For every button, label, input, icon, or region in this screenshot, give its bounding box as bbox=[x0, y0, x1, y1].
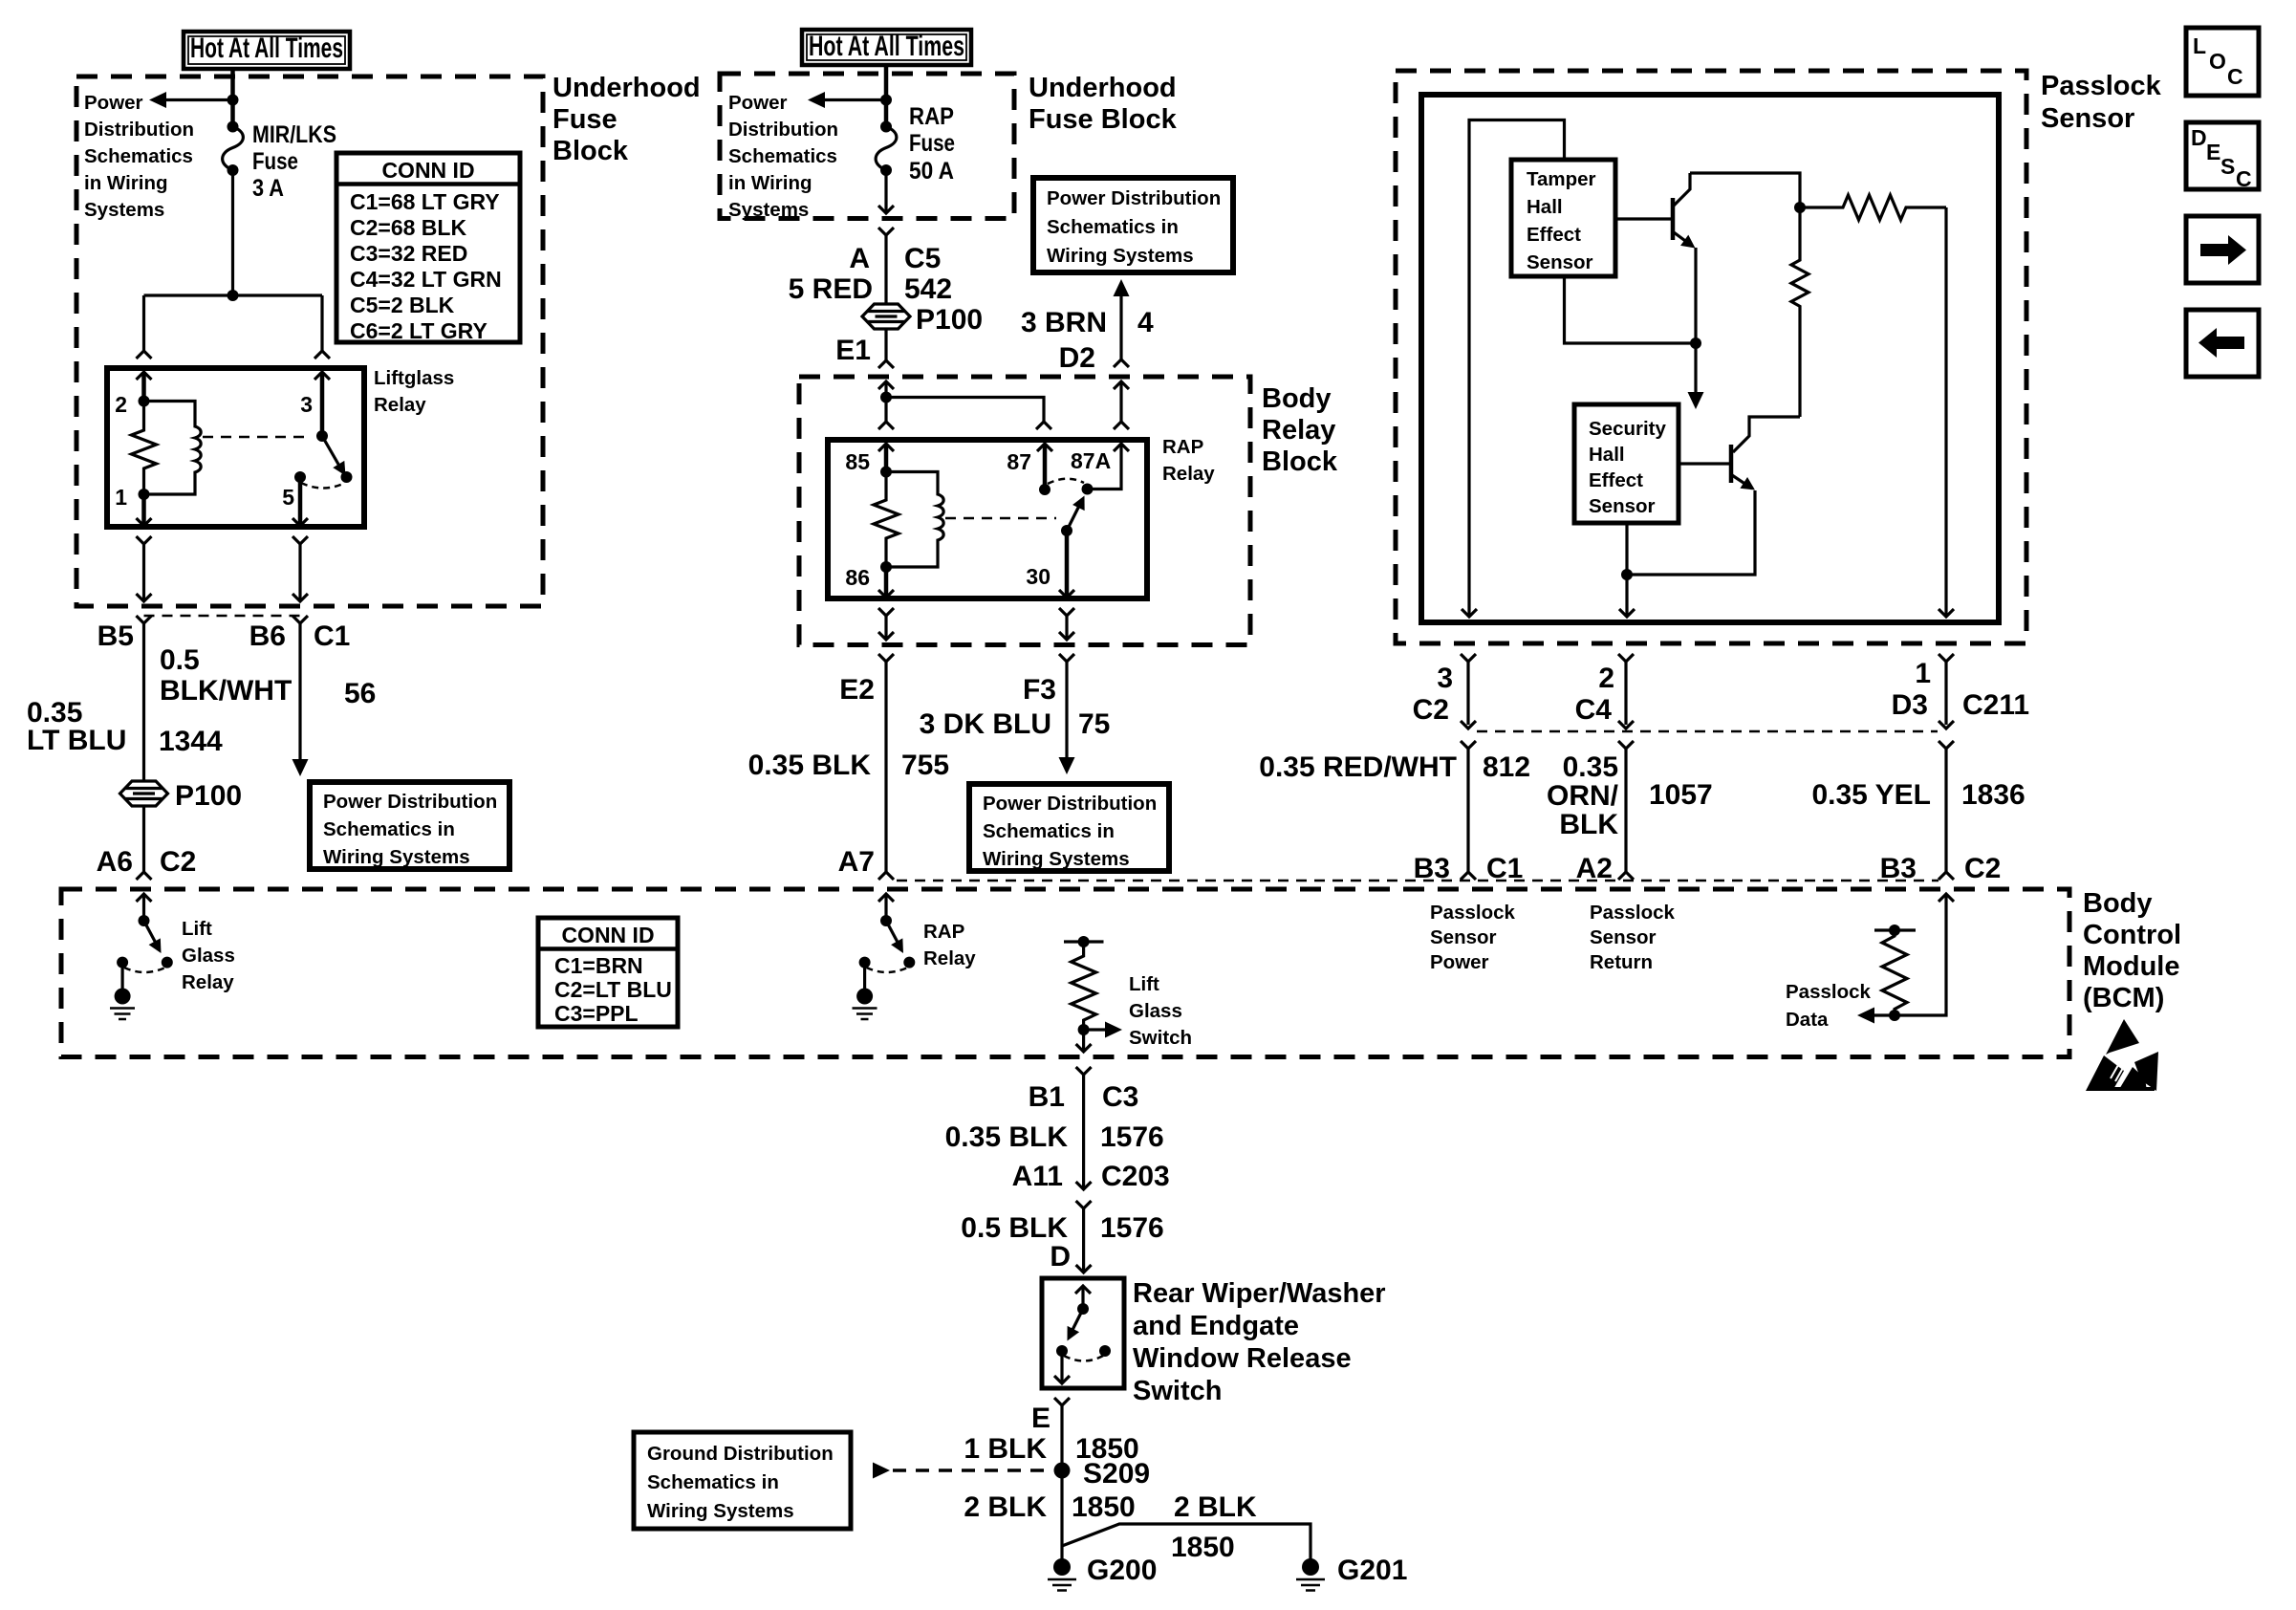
label: pin 1 bbox=[115, 485, 127, 510]
wire: tamper sensor output to Q1 base bbox=[1615, 217, 1673, 220]
connector A / C5 bbox=[849, 228, 941, 274]
wire: security sensor output to Q2 base bbox=[1679, 462, 1731, 465]
label: Rear Wiper/Washer and Endgate Window Release Switch bbox=[1133, 1278, 1386, 1406]
label: pin 3 bbox=[300, 392, 313, 417]
label: 0.35 BLK 1576 bbox=[945, 1121, 1164, 1153]
svg-text:P100: P100 bbox=[175, 780, 242, 812]
node: RAP relay pivot (BCM) bbox=[880, 915, 892, 926]
node: passlock data junction bbox=[1889, 1010, 1900, 1021]
svg-text:S209: S209 bbox=[1083, 1458, 1150, 1490]
label: pin 87A bbox=[1071, 448, 1111, 473]
wire: passlock data input bbox=[1895, 894, 1954, 1015]
label: pin 30 bbox=[1026, 564, 1051, 589]
wire: pin 1 to connector C211 level bbox=[1939, 662, 1954, 729]
label: RAP Relay (BCM) bbox=[923, 921, 976, 969]
svg-text:O: O bbox=[2209, 49, 2226, 74]
svg-text:Relay: Relay bbox=[1262, 415, 1335, 446]
fuse F2 RAP 50A bbox=[876, 121, 897, 177]
dashed arc: throw positions (liftglass relay) bbox=[301, 483, 345, 489]
label: Power Distribution Schematics in Wiring Systems (middle) bbox=[728, 92, 838, 221]
label: 2 BLK 1850 (right) bbox=[1171, 1491, 1257, 1563]
wire: feed branch to 87 bbox=[886, 398, 1051, 430]
connector A6 / C2 bbox=[97, 846, 197, 878]
svg-text:1: 1 bbox=[115, 485, 127, 510]
svg-text:G201: G201 bbox=[1337, 1555, 1407, 1586]
svg-text:Relay: Relay bbox=[374, 394, 426, 416]
node: lift glass switch junction bbox=[1078, 1024, 1090, 1035]
node: junction to Power Distribution (middle) bbox=[880, 95, 892, 106]
svg-text:in Wiring: in Wiring bbox=[84, 172, 168, 194]
svg-text:Fuse: Fuse bbox=[909, 130, 955, 157]
svg-text:L: L bbox=[2193, 33, 2206, 58]
switch blade (lift glass relay BCM) bbox=[144, 921, 167, 956]
label: 0.35 ORN/BLK 1057 bbox=[1547, 751, 1713, 840]
svg-text:Switch: Switch bbox=[1129, 1027, 1192, 1049]
svg-text:Schematics in: Schematics in bbox=[983, 820, 1115, 842]
wire: pin 3 to connector C211 level bbox=[1461, 662, 1476, 729]
label: pin 85 bbox=[845, 449, 870, 474]
svg-text:and Endgate: and Endgate bbox=[1133, 1311, 1299, 1341]
svg-text:Glass: Glass bbox=[182, 945, 235, 967]
svg-text:C: C bbox=[2227, 64, 2243, 89]
node: RAP relay ground contact (BCM) bbox=[859, 957, 871, 968]
wire: circuit 1836 to BCM B3/C2 bbox=[1939, 741, 1954, 880]
Passlock Sensor dashed boundary bbox=[1396, 71, 2026, 643]
svg-text:F3: F3 bbox=[1023, 674, 1056, 706]
svg-text:C1: C1 bbox=[314, 620, 350, 652]
svg-text:BLK/WHT: BLK/WHT bbox=[160, 675, 292, 707]
dashed wire: ground distribution reference bbox=[873, 1463, 1051, 1479]
node: switch pivot (liftglass relay) bbox=[316, 430, 328, 442]
svg-text:0.35: 0.35 bbox=[1563, 751, 1618, 783]
svg-text:5 RED: 5 RED bbox=[789, 273, 873, 305]
connector face dashed line B5-B6 bbox=[144, 615, 301, 618]
wire: circuit 1057 to BCM A2 bbox=[1618, 741, 1634, 880]
splice P100 (middle) bbox=[862, 304, 910, 329]
svg-text:Tamper: Tamper bbox=[1527, 168, 1596, 190]
svg-text:Block: Block bbox=[552, 136, 629, 166]
svg-text:50 A: 50 A bbox=[909, 158, 954, 185]
svg-text:A2: A2 bbox=[1576, 853, 1613, 884]
transistor Q2 (security) bbox=[1731, 445, 1759, 495]
label: Underhood Fuse Block (middle) bbox=[1029, 73, 1178, 135]
resistor: liftglass relay coil shunt bbox=[132, 402, 157, 495]
svg-text:LT BLU: LT BLU bbox=[27, 725, 126, 756]
back arrow button bbox=[2186, 310, 2259, 377]
node: relay feed junction bbox=[880, 392, 892, 403]
wire: circuit 1850 branch to G201 bbox=[1062, 1524, 1310, 1564]
wire: arrow to Passlock Data bbox=[1857, 1008, 1895, 1024]
wire: feed down to pin 85 bbox=[878, 398, 894, 430]
wire: circuit 1576 B1 to C203 bbox=[1076, 1075, 1092, 1189]
svg-text:Passlock: Passlock bbox=[2041, 71, 2162, 101]
wire: drop to liftglass relay pin 3 bbox=[314, 295, 330, 359]
svg-text:Sensor: Sensor bbox=[1527, 251, 1593, 273]
svg-text:Hall: Hall bbox=[1589, 444, 1625, 466]
svg-text:Sensor: Sensor bbox=[1589, 495, 1656, 517]
wire: P100 to A6 bbox=[137, 806, 152, 880]
svg-text:3: 3 bbox=[300, 392, 313, 417]
wire: fuse output down to split (left) bbox=[231, 170, 234, 295]
svg-text:G200: G200 bbox=[1087, 1555, 1157, 1586]
label: Passlock Sensor Power bbox=[1430, 902, 1515, 973]
svg-text:Lift: Lift bbox=[182, 918, 212, 940]
svg-text:E1: E1 bbox=[835, 335, 871, 366]
svg-text:812: 812 bbox=[1483, 751, 1530, 783]
svg-text:Security: Security bbox=[1589, 418, 1666, 440]
svg-text:B3: B3 bbox=[1414, 853, 1450, 884]
dashed arc: throw positions (RAP relay) bbox=[1048, 479, 1084, 484]
wire: pin 2 to connector level bbox=[1618, 662, 1634, 729]
connector pin 3 below passlock bbox=[1413, 654, 1476, 726]
switch blade (RAP relay BCM) bbox=[886, 921, 909, 956]
svg-text:0.5 BLK: 0.5 BLK bbox=[961, 1212, 1068, 1244]
label: pin 5 bbox=[282, 485, 294, 510]
wire: circuit 812 to BCM B3 bbox=[1461, 741, 1476, 880]
svg-text:C4: C4 bbox=[1575, 694, 1613, 726]
node: pin 1 bbox=[139, 489, 150, 500]
svg-text:0.5: 0.5 bbox=[160, 644, 200, 676]
svg-text:1576: 1576 bbox=[1100, 1121, 1164, 1153]
node: lift glass relay ground contact bbox=[117, 957, 128, 968]
svg-text:C2: C2 bbox=[160, 846, 196, 878]
svg-text:75: 75 bbox=[1078, 708, 1110, 740]
wire: 87A contact to pin 87A exit bbox=[1088, 444, 1130, 490]
Underhood Fuse Block (left) dashed boundary bbox=[76, 76, 543, 606]
node: pullup junction bbox=[1794, 202, 1806, 213]
svg-text:Systems: Systems bbox=[84, 199, 164, 221]
svg-text:3: 3 bbox=[1437, 663, 1453, 694]
wire: rear switch output exit bbox=[1054, 1351, 1070, 1383]
wire: circuit 56 B6/C1 down to Power Distribution bbox=[292, 623, 309, 776]
label: 0.35 RED/WHT 812 bbox=[1259, 751, 1530, 783]
Passlock sensor inner case bbox=[1421, 95, 1999, 622]
svg-text:Hall: Hall bbox=[1527, 196, 1563, 218]
resistor: passlock data series (horizontal) bbox=[1800, 195, 1946, 220]
label: 0.35 YEL 1836 bbox=[1811, 779, 2025, 811]
svg-text:B1: B1 bbox=[1029, 1081, 1065, 1113]
svg-text:Module: Module bbox=[2083, 951, 2180, 982]
svg-text:RAP: RAP bbox=[923, 921, 964, 943]
label: pin 87 bbox=[1007, 449, 1031, 474]
node: rear switch pivot bbox=[1077, 1303, 1089, 1315]
svg-text:Power: Power bbox=[728, 92, 788, 114]
label: P100 (left) bbox=[175, 780, 242, 812]
svg-text:A6: A6 bbox=[97, 846, 133, 878]
dashed arc: rear switch throw bbox=[1064, 1356, 1103, 1361]
node: 87A contact bbox=[1082, 484, 1094, 495]
svg-text:Relay: Relay bbox=[1162, 463, 1215, 485]
svg-text:Return: Return bbox=[1590, 951, 1653, 973]
connector A2 bbox=[1576, 853, 1613, 884]
connector: pin 86 below relay bbox=[878, 608, 894, 640]
svg-text:C6=2 LT GRY: C6=2 LT GRY bbox=[350, 318, 487, 343]
wire: Q1 emitter down bbox=[1694, 248, 1697, 343]
svg-text:87A: 87A bbox=[1071, 448, 1111, 473]
svg-text:1 BLK: 1 BLK bbox=[964, 1433, 1047, 1465]
svg-text:2: 2 bbox=[1598, 663, 1614, 694]
svg-text:B5: B5 bbox=[97, 620, 134, 652]
node: split junction (left) bbox=[227, 290, 239, 301]
wire: pin 86 exit bbox=[878, 567, 894, 598]
svg-text:Effect: Effect bbox=[1527, 224, 1581, 246]
wire: 87 fixed contact bbox=[1037, 444, 1052, 490]
wire: sensor supply rail (pin 3) bbox=[1462, 120, 1565, 618]
svg-text:87: 87 bbox=[1007, 449, 1031, 474]
Ground Distribution Schematics box bbox=[634, 1432, 851, 1529]
resistor: RAP relay coil shunt bbox=[874, 472, 899, 568]
svg-text:E: E bbox=[2206, 140, 2220, 164]
svg-text:A11: A11 bbox=[1012, 1161, 1063, 1192]
svg-text:2 BLK: 2 BLK bbox=[1174, 1491, 1257, 1523]
svg-text:Passlock: Passlock bbox=[1590, 902, 1675, 924]
wire: drop to liftglass relay pin 2 bbox=[137, 295, 152, 359]
label: Underhood Fuse Block (left) bbox=[552, 73, 701, 166]
svg-text:(BCM): (BCM) bbox=[2083, 983, 2164, 1013]
wire: pin 3 feed to switch pivot bbox=[314, 372, 330, 436]
svg-text:CONN ID: CONN ID bbox=[561, 923, 654, 947]
svg-text:Fuse Block: Fuse Block bbox=[1029, 104, 1178, 135]
node: rear switch output contact bbox=[1056, 1345, 1068, 1357]
svg-text:C2=68 BLK: C2=68 BLK bbox=[350, 215, 466, 240]
wire: Q2 emitter to security return bbox=[1627, 490, 1755, 575]
svg-text:1057: 1057 bbox=[1649, 779, 1713, 811]
svg-text:C5=2 BLK: C5=2 BLK bbox=[350, 293, 455, 317]
svg-text:C2: C2 bbox=[1964, 853, 2001, 884]
wire: pin 5 exit bbox=[292, 477, 308, 526]
svg-text:C2: C2 bbox=[1413, 694, 1449, 726]
ground G200 bbox=[1048, 1555, 1157, 1591]
Body Control Module dashed boundary bbox=[61, 889, 2069, 1057]
Power Distribution Schematics box (right of middle) bbox=[1033, 178, 1233, 272]
svg-text:Underhood: Underhood bbox=[1029, 73, 1177, 103]
svg-text:3 A: 3 A bbox=[252, 175, 284, 202]
svg-text:RAP: RAP bbox=[1162, 436, 1203, 458]
connector B3 / C1 bbox=[1414, 853, 1524, 884]
ESD sensitive symbol bbox=[2086, 1019, 2158, 1091]
node: lift glass switch top bbox=[1078, 936, 1090, 947]
node: tamper emitter junction bbox=[1690, 337, 1701, 349]
label: 2 BLK 1850 (left) bbox=[964, 1491, 1135, 1523]
label: Lift Glass Relay bbox=[182, 918, 235, 993]
ground: RAP relay coil (BCM) bbox=[853, 963, 877, 1019]
connector face dashed line BCM bbox=[897, 880, 1939, 882]
dashed arc: lift glass relay throw bbox=[124, 968, 165, 972]
svg-text:Power: Power bbox=[84, 92, 143, 114]
svg-text:2 BLK: 2 BLK bbox=[964, 1491, 1047, 1523]
connector: pin 5 below relay bbox=[292, 536, 308, 601]
svg-text:Schematics in: Schematics in bbox=[1047, 216, 1179, 238]
svg-text:Wiring Systems: Wiring Systems bbox=[1047, 245, 1194, 267]
node: junction to Power Distribution (left) bbox=[227, 95, 239, 106]
svg-text:0.35 RED/WHT: 0.35 RED/WHT bbox=[1259, 751, 1457, 783]
ground G201 bbox=[1296, 1555, 1407, 1591]
switch blade (rear wiper) bbox=[1061, 1309, 1083, 1344]
label: Passlock Data bbox=[1786, 981, 1871, 1031]
connector: D2 wire into relay block bbox=[1114, 381, 1129, 429]
label: 3 BRN 4 bbox=[1021, 307, 1154, 338]
svg-text:86: 86 bbox=[845, 565, 870, 590]
label: Liftglass Relay bbox=[374, 367, 454, 416]
resistor: pullup (vertical) bbox=[1791, 207, 1809, 417]
svg-text:Wiring Systems: Wiring Systems bbox=[983, 848, 1130, 870]
svg-text:ORN/: ORN/ bbox=[1547, 780, 1619, 812]
wire: arrow to Power Distribution Schematics (left) bbox=[149, 92, 233, 108]
svg-text:Body: Body bbox=[1262, 383, 1332, 414]
svg-text:D: D bbox=[2191, 125, 2207, 150]
resistor: passlock data (BCM) bbox=[1882, 930, 1907, 1015]
coil: liftglass relay bbox=[144, 402, 202, 495]
label: 5 RED 542 bbox=[789, 273, 952, 305]
connector pin 2 below passlock bbox=[1575, 654, 1634, 726]
fuse F1 MIR/LKS 3A bbox=[223, 121, 244, 177]
Tamper Hall Effect Sensor box bbox=[1511, 160, 1615, 276]
forward arrow button bbox=[2186, 216, 2259, 283]
svg-text:Systems: Systems bbox=[728, 199, 809, 221]
svg-text:Hot At All Times: Hot At All Times bbox=[190, 33, 343, 64]
label: 1 BLK 1850 bbox=[964, 1433, 1138, 1465]
Body Relay Block dashed boundary bbox=[799, 377, 1250, 645]
connector pin 1 below passlock bbox=[1892, 654, 2029, 721]
svg-text:C203: C203 bbox=[1101, 1161, 1170, 1192]
node: lift glass relay blade contact bbox=[162, 957, 173, 968]
Power Distribution Schematics box (below F3) bbox=[969, 784, 1169, 871]
svg-text:Distribution: Distribution bbox=[728, 119, 838, 141]
svg-text:0.35 YEL: 0.35 YEL bbox=[1811, 779, 1931, 811]
svg-text:Distribution: Distribution bbox=[84, 119, 194, 141]
svg-text:5: 5 bbox=[282, 485, 294, 510]
wire: pin 30 exit bbox=[1059, 531, 1074, 598]
svg-text:A7: A7 bbox=[838, 846, 875, 878]
svg-text:Passlock: Passlock bbox=[1786, 981, 1871, 1003]
wire: pin 1 exit bbox=[137, 494, 152, 526]
svg-text:Control: Control bbox=[2083, 920, 2181, 950]
switch feed (rear wiper) bbox=[1075, 1286, 1091, 1309]
svg-text:Rear Wiper/Washer: Rear Wiper/Washer bbox=[1133, 1278, 1386, 1309]
wire: circuit 1576 C203 to switch pin D bbox=[1076, 1208, 1092, 1273]
svg-text:Switch: Switch bbox=[1133, 1376, 1222, 1406]
dashed link: coil to switch (liftglass relay) bbox=[203, 436, 304, 439]
wire: circuit 1850 S209 to G200 bbox=[1060, 1470, 1063, 1567]
svg-text:0.35 BLK: 0.35 BLK bbox=[945, 1121, 1069, 1153]
svg-text:3 DK BLU: 3 DK BLU bbox=[920, 708, 1051, 740]
wire: lift glass switch output to B1 bbox=[1076, 1030, 1092, 1052]
ground: lift glass relay coil bbox=[110, 963, 135, 1019]
svg-text:1836: 1836 bbox=[1961, 779, 2025, 811]
svg-text:C3: C3 bbox=[1102, 1081, 1138, 1113]
svg-text:Fuse: Fuse bbox=[552, 104, 617, 135]
Underhood Fuse Block (middle) dashed boundary bbox=[720, 74, 1014, 219]
pin 85 entry arrow bbox=[878, 444, 894, 472]
node: pin 85 bbox=[880, 467, 892, 478]
svg-text:C3=32 RED: C3=32 RED bbox=[350, 241, 467, 266]
svg-text:D3: D3 bbox=[1892, 689, 1928, 721]
wire: battery feed down (middle) bbox=[884, 65, 889, 126]
wire: tamper internal ground arrow bbox=[1688, 343, 1704, 409]
label: MIR/LKS Fuse 3 A bbox=[252, 121, 336, 202]
wire: circuit 1850 E to S209 bbox=[1060, 1405, 1063, 1470]
resistor: lift glass switch input bbox=[1072, 942, 1096, 1030]
coil: RAP relay bbox=[886, 472, 943, 568]
svg-text:Ground Distribution: Ground Distribution bbox=[647, 1443, 834, 1465]
svg-text:B3: B3 bbox=[1880, 853, 1917, 884]
svg-text:MIR/LKS: MIR/LKS bbox=[252, 121, 336, 148]
wire: tamper sensor ground leg bbox=[1565, 276, 1697, 343]
svg-text:Sensor: Sensor bbox=[2041, 103, 2134, 134]
svg-text:542: 542 bbox=[904, 273, 952, 305]
svg-text:1576: 1576 bbox=[1100, 1212, 1164, 1244]
svg-text:BLK: BLK bbox=[1559, 809, 1618, 840]
label: pin 2 bbox=[115, 392, 127, 417]
svg-text:56: 56 bbox=[344, 678, 376, 709]
svg-text:D2: D2 bbox=[1059, 342, 1095, 374]
connector: pin 1 below relay bbox=[137, 536, 152, 601]
svg-text:E2: E2 bbox=[839, 674, 875, 706]
svg-text:Relay: Relay bbox=[182, 971, 234, 993]
connector B3 / C2 bbox=[1880, 853, 2002, 884]
svg-text:C: C bbox=[2236, 166, 2252, 191]
svg-text:RAP: RAP bbox=[909, 103, 954, 130]
wire: P100 to E1 bbox=[878, 329, 894, 368]
wire: battery feed down from Hot At All Times (left) bbox=[230, 67, 235, 126]
svg-text:2: 2 bbox=[115, 392, 127, 417]
svg-text:Wiring Systems: Wiring Systems bbox=[647, 1500, 794, 1522]
svg-text:Window Release: Window Release bbox=[1133, 1343, 1352, 1374]
RAP Relay box bbox=[828, 440, 1147, 598]
label: Lift Glass Switch bbox=[1129, 973, 1192, 1049]
node: pin 86 bbox=[880, 561, 892, 573]
LOC button bbox=[2186, 28, 2259, 96]
wire: security sensor ground leg (pin 2) bbox=[1619, 523, 1635, 617]
Power Distribution Schematics box (below 56) bbox=[310, 782, 509, 869]
svg-text:C1=68 LT GRY: C1=68 LT GRY bbox=[350, 189, 500, 214]
Hot At All Times box (left) bbox=[184, 32, 350, 69]
svg-text:3 BRN: 3 BRN bbox=[1021, 307, 1107, 338]
label: Passlock Sensor bbox=[2041, 71, 2162, 134]
svg-text:Body: Body bbox=[2083, 888, 2153, 919]
svg-text:Lift: Lift bbox=[1129, 973, 1159, 995]
label: 56 bbox=[344, 678, 376, 709]
connector D bbox=[1050, 1241, 1071, 1273]
svg-text:Glass: Glass bbox=[1129, 1000, 1182, 1022]
switch blade (RAP relay) bbox=[1067, 492, 1091, 531]
connector F3 bbox=[1023, 654, 1074, 706]
Liftglass Relay box bbox=[107, 368, 364, 527]
wire: circuit 1344 B5 to P100 bbox=[142, 623, 145, 781]
connector A11 / C203 bbox=[1012, 1161, 1170, 1208]
connector E2 bbox=[839, 654, 894, 706]
node: RAP relay blade contact (BCM) bbox=[903, 957, 915, 968]
svg-text:Liftglass: Liftglass bbox=[374, 367, 454, 389]
label: 0.35 BLK 755 bbox=[748, 750, 949, 781]
lift glass relay switch arrow (BCM) bbox=[137, 894, 152, 921]
svg-text:Power Distribution: Power Distribution bbox=[323, 791, 497, 813]
DESC button bbox=[2186, 122, 2259, 191]
svg-text:B6: B6 bbox=[249, 620, 286, 652]
svg-text:C1=BRN: C1=BRN bbox=[554, 953, 643, 978]
CONN ID table (underhood fuse block) bbox=[336, 153, 520, 343]
svg-text:P100: P100 bbox=[916, 304, 983, 336]
label: 0.5 BLK 1576 bbox=[961, 1212, 1163, 1244]
svg-text:30: 30 bbox=[1026, 564, 1051, 589]
splice S209 bbox=[1054, 1458, 1151, 1490]
label: Body Control Module (BCM) bbox=[2083, 888, 2181, 1013]
svg-text:Power Distribution: Power Distribution bbox=[983, 793, 1157, 815]
wire: arrow to Power Distribution Schematics (middle) bbox=[808, 92, 886, 108]
svg-text:0.35 BLK: 0.35 BLK bbox=[748, 750, 872, 781]
connector B5 bbox=[97, 616, 152, 652]
wire: fuse to fuse block edge bbox=[878, 170, 894, 213]
